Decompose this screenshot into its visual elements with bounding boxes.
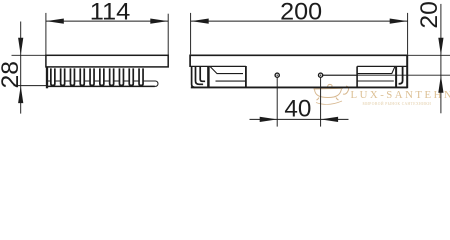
rim bottom right segment (357, 65, 407, 67)
rim bar side view (46, 55, 168, 67)
svg-text:114: 114 (90, 0, 131, 26)
rim bottom left segment (190, 65, 246, 67)
svg-text:28: 28 (0, 61, 24, 89)
watermark text LUX-SANTEH (351, 89, 450, 106)
watermark bathtub logo (314, 84, 349, 104)
rim top line (190, 54, 408, 56)
dimension 20 arrows (438, 38, 443, 55)
dimension 40 line (250, 118, 349, 120)
left hook wire outer (192, 67, 195, 87)
left end cap inner slant and top inner line (210, 67, 243, 74)
bottom rail rounded right end (150, 81, 158, 86)
right end cap inner top line and slant (357, 67, 395, 74)
dimension 40 extension lines (276, 78, 278, 127)
dimension 20 extension lines (408, 54, 450, 56)
svg-text:МИРОВОЙ РЫНОК САНТЕХНИКИ: МИРОВОЙ РЫНОК САНТЕХНИКИ (363, 101, 432, 106)
right end cap left edge (356, 66, 358, 87)
dimension 40 arrows (260, 117, 278, 122)
dimension 114 extension lines (45, 13, 47, 55)
screw hole left (275, 73, 279, 77)
rim left edge (189, 55, 191, 68)
dimension 28 line (20, 22, 22, 114)
right end cap inner bottom line (357, 80, 394, 82)
right hook wire (399, 66, 403, 83)
svg-text:20: 20 (416, 1, 443, 29)
rim right edge / right end wire (406, 55, 408, 89)
dimension 200 line (191, 20, 408, 22)
left end cap outer left edge (207, 66, 210, 87)
bottom rail bottom line (46, 85, 155, 87)
left hook wire middle (196, 67, 204, 84)
svg-text:LUX-SANTEHNIKA: LUX-SANTEHNIKA (351, 89, 450, 101)
bottom front rail (191, 86, 408, 88)
dimension 28 arrows (18, 38, 23, 55)
dimension 200 arrows (191, 19, 209, 24)
dimension 200 extension lines (190, 13, 192, 55)
left end wire (46, 67, 48, 88)
basket wires (10 slats) (51, 68, 143, 85)
dimension 114 line (46, 20, 168, 22)
bottom rail top line (46, 80, 155, 82)
left end cap right edge (245, 66, 247, 87)
wire from right hole to right cap (323, 74, 357, 76)
dimension 114 arrows (46, 19, 64, 24)
svg-text:40: 40 (284, 95, 311, 122)
svg-text:200: 200 (280, 0, 322, 26)
left end cap inner bottom line (216, 80, 246, 82)
screw hole right (319, 73, 323, 77)
dimension 28 extension lines (12, 54, 46, 56)
right end cap right edge (395, 66, 397, 87)
dimension 20 line (440, 4, 442, 113)
left hook wire third (200, 67, 205, 81)
